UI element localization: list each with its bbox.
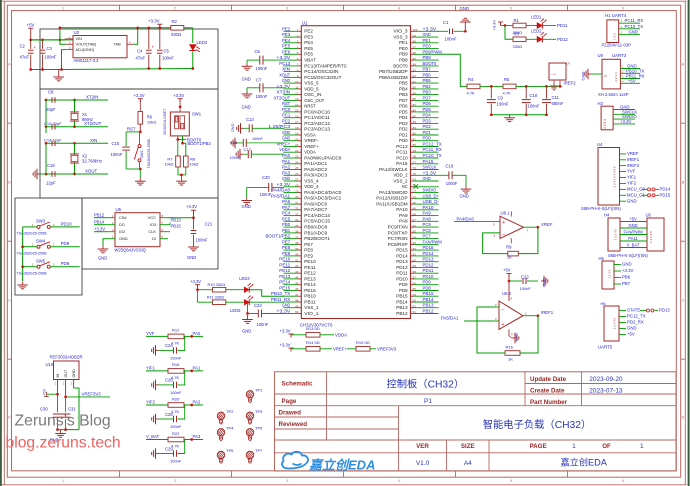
svg-text:PA7: PA7 [282,205,291,210]
svg-text:PB8: PB8 [399,58,408,63]
svg-text:14: 14 [295,103,299,107]
svg-text:100nF: 100nF [170,459,182,464]
svg-text:+5V: +5V [627,332,635,337]
svg-text:28: 28 [295,184,299,188]
net SWDIO [622,114,637,119]
svg-text:PA12/USB1DP: PA12/USB1DP [376,196,408,201]
svg-text:PD12: PD12 [423,262,434,267]
svg-text:PA9: PA9 [423,211,432,216]
svg-text:C7: C7 [256,78,262,83]
svg-text:54: 54 [413,293,417,297]
svg-text:PA14/SWCLK: PA14/SWCLK [379,167,408,172]
svg-text:PB10: PB10 [304,294,316,299]
resistor R9 [506,245,518,260]
svg-text:PA0/WKUP/ADC0: PA0/WKUP/ADC0 [304,155,342,160]
svg-text:H6: H6 [601,301,607,306]
svg-text:PE9: PE9 [282,251,291,256]
svg-text:PB11: PB11 [304,299,316,304]
svg-text:PA5/ADC5/DAC1: PA5/ADC5/DAC1 [304,196,342,201]
capacitor C9 [487,86,509,114]
svg-text:82: 82 [413,132,417,136]
svg-text:DSX021LSGET: DSX021LSGET [163,108,167,135]
test point TP3 [246,409,263,424]
svg-text:C15: C15 [112,141,120,146]
svg-text:SWCLK: SWCLK [423,165,437,170]
svg-text:2: 2 [174,479,176,483]
wire ADJ to gnd rail [62,50,66,70]
svg-text:50: 50 [295,310,299,314]
svg-text:92: 92 [413,74,417,78]
test point TP7 [246,448,263,463]
ground ref [50,430,66,443]
svg-text:PE0: PE0 [423,44,432,49]
svg-text:45: 45 [295,281,299,285]
svg-text:FAN/PWM: FAN/PWM [623,230,643,235]
net VREF3V3 ref [64,392,110,399]
svg-text:60: 60 [413,258,417,262]
svg-text:100nF: 100nF [111,152,123,157]
svg-text:24: 24 [295,161,299,165]
svg-text:100nF: 100nF [252,137,263,141]
svg-text:R15 0Ω: R15 0Ω [356,340,370,345]
title label PAGE [530,443,547,450]
connector U9 UART3 [596,53,640,89]
svg-text:PC14/OSC32IN: PC14/OSC32IN [304,69,338,74]
svg-text:Schematic: Schematic [282,380,314,387]
svg-text:66: 66 [413,224,417,228]
svg-text:PC12_TX: PC12_TX [423,142,442,147]
svg-text:PB9: PB9 [399,52,408,57]
svg-text:40: 40 [295,253,299,257]
svg-text:100nF: 100nF [170,424,182,429]
capacitor C13 [231,117,285,134]
svg-text:PD12: PD12 [396,265,408,270]
svg-text:15: 15 [295,109,299,113]
svg-text:GND: GND [423,32,432,37]
wire +5V rail [29,39,72,42]
svg-text:PE11: PE11 [304,265,316,270]
svg-text:U2: U2 [74,30,80,35]
svg-text:39: 39 [295,247,299,251]
svg-text:YIF1: YIF1 [146,365,156,370]
svg-text:U8.2: U8.2 [502,291,512,296]
capacitor C8 [46,90,56,113]
svg-text:90: 90 [413,86,417,90]
svg-text:VREF+: VREF+ [304,144,319,149]
svg-text:+5V: +5V [27,22,35,27]
svg-text:GND: GND [460,6,470,11]
svg-text:C10: C10 [530,93,538,98]
svg-text:YVF: YVF [146,331,155,336]
title label Create Date [530,388,565,395]
svg-text:TAB: TAB [114,42,122,47]
svg-text:D: D [8,416,11,420]
svg-text:VBAT: VBAT [304,58,316,63]
svg-text:PA11/USB1DM: PA11/USB1DM [376,202,408,207]
svg-text:YIF2: YIF2 [146,400,156,405]
svg-text:V1.0: V1.0 [416,460,430,467]
ground regulator [53,70,64,81]
svg-text:XOUT: XOUT [279,72,290,77]
svg-text:R12: R12 [172,328,180,333]
svg-text:89: 89 [413,91,417,95]
svg-text:PE3: PE3 [304,35,313,40]
svg-text:PB4: PB4 [399,86,408,91]
svg-text:PD6: PD6 [399,104,408,109]
svg-text:+5V: +5V [628,78,636,83]
svg-text:81: 81 [413,137,417,141]
svg-text:47uF: 47uF [20,55,30,60]
svg-text:680nF: 680nF [552,101,564,106]
logo JLC EDA [282,452,375,473]
svg-text:PA3: PA3 [282,170,291,175]
net XIN [90,138,97,143]
svg-text:PB3: PB3 [399,92,408,97]
svg-text:U1: U1 [302,20,308,25]
svg-text:VREF: VREF [627,151,639,156]
resistor R4 [467,77,504,95]
title value project name [483,418,592,431]
capacitor C6 [242,49,285,82]
svg-text:PA10: PA10 [423,205,434,210]
svg-text:PA8: PA8 [423,216,432,221]
svg-text:PD11: PD11 [557,23,568,28]
svg-text:BOOT0: BOOT0 [393,63,408,68]
svg-text:49: 49 [295,304,299,308]
net GND uart3 [627,64,637,69]
svg-text:+3.3V: +3.3V [423,170,437,175]
wire gnd rail [29,67,194,71]
svg-text:62: 62 [413,247,417,251]
svg-text:93: 93 [413,68,417,72]
svg-text:PC1/ADC11: PC1/ADC11 [304,115,330,120]
svg-text:XOUT: XOUT [85,169,98,174]
svg-text:+3.3V: +3.3V [276,55,290,60]
svg-text:SW3: SW3 [36,219,46,224]
svg-text:100nF: 100nF [230,156,241,160]
svg-text:PB4: PB4 [423,84,432,89]
svg-text:SW1: SW1 [192,112,202,117]
svg-text:GND: GND [423,176,432,181]
svg-text:VDDA: VDDA [304,150,316,155]
svg-text:C24: C24 [165,343,173,348]
svg-text:+3.3V: +3.3V [173,93,184,98]
svg-text:C14 12pF: C14 12pF [44,138,62,143]
test point TP5 [246,425,263,440]
svg-text:Create Date: Create Date [530,388,565,395]
label UART5 [598,345,613,350]
svg-text:C21: C21 [205,222,213,227]
svg-text:VDD_4: VDD_4 [304,184,319,189]
svg-text:10kΩ: 10kΩ [190,162,199,166]
svg-text:PD12: PD12 [557,37,568,42]
svg-text:OF: OF [602,443,611,450]
svg-text:R9: R9 [506,245,512,250]
svg-text:C4: C4 [137,49,143,54]
svg-text:V_BAT: V_BAT [627,243,640,248]
svg-text:PD5: PD5 [399,109,408,114]
svg-text:CS#: CS# [119,215,127,220]
svg-text:VSS_1: VSS_1 [304,305,319,310]
svg-text:PA1: PA1 [193,365,201,370]
reference U10 [46,355,83,397]
opamp U7 [549,62,571,90]
title value create date [589,388,623,395]
svg-text:80: 80 [413,143,417,147]
switch SW3 [17,219,80,236]
net +5V uart3 [628,78,636,83]
svg-text:PD2: PD2 [399,127,408,132]
capacitor C17 [230,147,285,160]
title value board name [386,377,464,390]
svg-text:PE12: PE12 [279,268,290,273]
svg-text:PD15: PD15 [660,193,671,198]
svg-text:1 2 3 4: 1 2 3 4 [614,72,618,82]
LED1 [531,15,556,29]
connector H1 UART4 [605,13,640,43]
svg-text:10kΩ: 10kΩ [165,162,174,166]
svg-text:PA5/DA1: PA5/DA1 [271,193,291,198]
svg-text:PC8: PC8 [423,228,432,233]
wire 3.3V rail right [138,26,171,29]
title label Schematic [282,380,314,387]
svg-text:PB14: PB14 [94,219,105,224]
svg-text:+3.3V: +3.3V [620,119,631,124]
svg-text:PB15: PB15 [171,223,182,228]
svg-text:PA1/ADC1: PA1/ADC1 [304,161,328,166]
svg-text:TSA363G25-250B: TSA363G25-250B [147,139,151,169]
svg-text:GND: GND [72,369,76,378]
svg-text:PD2: PD2 [423,124,432,129]
svg-text:VDD_5: VDD_5 [304,86,319,91]
svg-text:GND: GND [460,194,469,199]
svg-text:VSS_4: VSS_4 [304,178,319,183]
svg-text:53: 53 [413,299,417,303]
rc filter YVF [146,328,203,361]
title value page 1 [572,443,576,450]
net PC11_RX [625,18,644,23]
wire U8.2 feedback [477,307,538,353]
svg-text:PC2/ADC12: PC2/ADC12 [304,121,330,126]
svg-text:C: C [682,299,685,303]
svg-text:PC5/ADC15: PC5/ADC15 [304,219,330,224]
ground C1 top [460,6,471,31]
svg-text:99: 99 [413,34,417,38]
resistor R7 [165,156,181,167]
svg-text:29: 29 [295,189,299,193]
capacitor C10 [522,86,540,114]
power flag +5V [27,22,35,40]
capacitor C30 [40,394,62,429]
net IREF1 out [541,310,554,315]
svg-text:XH 2.5mm 1x4P: XH 2.5mm 1x4P [598,92,629,97]
svg-text:26: 26 [295,172,299,176]
svg-text:DI: DI [152,236,156,241]
svg-text:VDD_2: VDD_2 [393,173,408,178]
svg-text:PA3/ADC3: PA3/ADC3 [304,173,328,178]
capacitor C21 [191,218,213,244]
svg-text:PE6: PE6 [282,49,291,54]
flash U5 [107,207,168,252]
svg-text:GND: GND [282,78,291,83]
net PB15 [168,223,181,231]
mcu U1 right pins [376,26,442,316]
svg-text:PA6/ADC6: PA6/ADC6 [304,202,328,207]
svg-text:+3.3V: +3.3V [276,309,290,314]
svg-text:U5: U5 [116,207,122,212]
power flag +3.3V reset [134,93,145,112]
svg-text:1: 1 [62,479,64,483]
net PB14 [94,219,107,224]
svg-text:REF3033AIDBZR: REF3033AIDBZR [50,355,83,360]
svg-text:IREF2: IREF2 [627,163,640,168]
watermark Zeruns Blog [15,413,111,430]
svg-text:RST: RST [282,101,290,106]
svg-text:PC3/ADC13: PC3/ADC13 [304,127,330,132]
svg-text:84: 84 [413,120,417,124]
svg-text:PD15: PD15 [423,245,434,250]
svg-text:C23: C23 [254,303,262,308]
svg-text:VSSA: VSSA [304,132,316,137]
svg-text:+5V: +5V [629,217,637,222]
ground uart3 [581,69,597,81]
svg-text:PC12_TX: PC12_TX [627,314,646,319]
net PB12 [94,212,107,217]
net PA5/DA1 [441,315,494,321]
net VREF3V3 [377,346,397,351]
rc filter YIF1 [146,362,203,395]
svg-text:VREF-: VREF- [304,138,319,143]
svg-text:57: 57 [413,276,417,280]
svg-text:C6: C6 [255,49,261,54]
svg-text:C18: C18 [47,163,55,168]
ground boot [176,167,187,185]
svg-text:SW5: SW5 [36,258,46,263]
svg-text:11: 11 [295,86,298,90]
svg-text:PC15/OSC32OUT: PC15/OSC32OUT [304,75,342,80]
svg-text:PE14: PE14 [279,280,290,285]
svg-text:100nF: 100nF [256,66,268,71]
svg-text:USB_D+: USB_D+ [423,193,440,198]
title label Page [282,398,297,405]
svg-text:PE4: PE4 [304,40,313,45]
svg-text:3: 3 [286,479,288,483]
capacitor C3 [40,40,57,70]
svg-text:330Ω: 330Ω [171,32,181,37]
svg-text:TP5: TP5 [255,425,263,430]
svg-text:3: 3 [286,7,288,11]
svg-text:PE3: PE3 [282,32,291,37]
switch SW1 DIP [163,108,202,136]
power flag +3.3V r14 [280,342,307,351]
switches section box [15,198,82,295]
svg-text:1: 1 [572,443,576,450]
svg-text:38: 38 [295,241,299,245]
svg-text:22: 22 [295,149,299,153]
svg-text:PB1/ADC9: PB1/ADC9 [304,230,328,235]
net PA4/DA0 [454,216,500,221]
svg-text:D: D [682,416,685,420]
svg-text:GND: GND [629,29,639,34]
svg-text:C20: C20 [262,175,270,180]
svg-text:OUT: OUT [64,369,68,378]
svg-text:C31: C31 [68,407,76,412]
svg-text:PC13: PC13 [279,61,290,66]
svg-text:R11 330Ω: R11 330Ω [207,294,224,299]
capacitor C16 [230,137,284,148]
svg-text:PC7/RXN: PC7/RXN [388,236,408,241]
svg-text:R14 0Ω: R14 0Ω [306,340,320,345]
svg-text:PD11: PD11 [423,268,434,273]
svg-text:100nF: 100nF [446,181,458,186]
label S6B [608,253,648,258]
rc filter YIF2 [146,396,203,429]
svg-text:95: 95 [413,57,417,61]
net VDDA [335,332,347,337]
svg-text:C19: C19 [446,164,454,169]
capacitor C23 [242,302,284,333]
svg-text:C: C [8,299,11,303]
svg-text:PD1: PD1 [423,130,432,135]
ground xtal left [33,169,46,180]
capacitor C15 [111,132,130,169]
svg-text:PD6: PD6 [423,101,432,106]
svg-text:嘉立创EDA: 嘉立创EDA [560,456,607,467]
svg-text:83: 83 [413,126,417,130]
svg-text:1: 1 [62,7,64,11]
svg-text:PB1: PB1 [282,228,291,233]
net PD11 [557,23,568,28]
svg-text:BOOT1/PB2: BOOT1/PB2 [265,234,290,239]
svg-text:V_BAT: V_BAT [146,434,160,439]
svg-text:R22: R22 [172,431,180,436]
svg-text:PC10: PC10 [396,155,408,160]
title value of 1 [640,443,644,450]
svg-text:TP4: TP4 [226,425,234,430]
svg-text:GND: GND [627,326,637,331]
svg-text:PB12: PB12 [94,212,105,217]
ground C21 [187,244,199,260]
svg-text:13: 13 [295,97,299,101]
svg-text:100nF: 100nF [260,192,272,197]
net XT2IN [86,95,98,100]
test point TP6 [217,448,234,463]
svg-text:43: 43 [295,270,299,274]
svg-text:PB5: PB5 [423,78,432,83]
wire XIN [45,142,108,145]
svg-text:IO2: IO2 [119,229,125,234]
svg-text:56: 56 [413,281,417,285]
svg-text:GND: GND [242,105,251,110]
svg-text:PZ254V-11-03P: PZ254V-11-03P [602,42,632,47]
opamp U8.2 [494,281,539,343]
svg-text:100nF: 100nF [257,322,269,327]
svg-text:YVF: YVF [627,169,636,174]
svg-text:PC9/TXN: PC9/TXN [388,225,408,230]
svg-text:R18: R18 [172,362,180,367]
svg-text:Page: Page [282,398,297,405]
svg-text:100nF: 100nF [445,37,457,42]
svg-text:LED1: LED1 [531,15,542,20]
svg-text:100nF: 100nF [170,355,182,360]
svg-text:PB3: PB3 [423,90,432,95]
svg-text:XIN: XIN [282,67,290,72]
svg-text:PD14: PD14 [423,251,434,256]
svg-text:PD13: PD13 [423,257,434,262]
svg-text:PE9: PE9 [304,253,313,258]
svg-text:Drawed: Drawed [279,410,302,417]
svg-text:PA10: PA10 [396,207,408,212]
